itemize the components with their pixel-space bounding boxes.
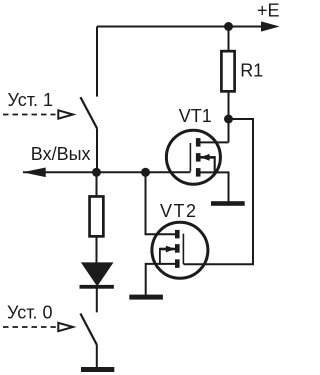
wire R1 top lead bbox=[228, 27, 230, 51]
wire left branch down to switch S1 top contact bbox=[96, 27, 98, 97]
wire drain node to VT2 gate (right side run) bbox=[184, 119, 253, 264]
junction dot node B bbox=[141, 168, 150, 177]
resistor R2 bbox=[90, 196, 104, 236]
open arrowhead Уст. 0 bbox=[58, 323, 73, 331]
junction dot node A bbox=[92, 168, 101, 177]
node Вх/Вых arrowhead bbox=[23, 168, 46, 178]
wire +E top rail bbox=[97, 26, 262, 28]
ground (VT1 source) bbox=[211, 201, 245, 206]
transistor VT2 bbox=[152, 222, 208, 278]
wire R1 bottom lead to drain node bbox=[228, 92, 230, 142]
svg-text:+E: +E bbox=[257, 1, 280, 21]
wire switch S2 bottom to ground bbox=[96, 345, 98, 368]
svg-text:VT2: VT2 bbox=[160, 201, 198, 221]
svg-text:Уст. 1: Уст. 1 bbox=[8, 90, 54, 110]
switch S1 (Уст. 1) blade bbox=[80, 97, 97, 128]
transistor VT1 bbox=[166, 130, 220, 184]
wire VT2 source lead to ground bbox=[146, 264, 175, 295]
diode VD1 bbox=[80, 262, 114, 288]
wire node B down to VT2 drain lead bbox=[146, 172, 176, 234]
svg-text:R1: R1 bbox=[240, 61, 263, 81]
open arrowhead Уст. 1 bbox=[58, 110, 73, 118]
svg-text:Уст. 0: Уст. 0 bbox=[7, 302, 53, 322]
wire node A down to resistor R2 bbox=[96, 172, 98, 195]
svg-text:Вх/Вых: Вх/Вых bbox=[31, 144, 91, 164]
resistor R1 bbox=[221, 51, 234, 91]
switch S2 (Уст. 0) blade bbox=[80, 314, 96, 345]
ground (switch S2) bbox=[81, 367, 114, 372]
ground (VT2 source) bbox=[129, 295, 163, 300]
wire VT1 source lead to ground bbox=[201, 172, 229, 201]
power +E arrowhead bbox=[261, 21, 280, 31]
wire VT1 drain lead bbox=[201, 141, 229, 143]
wire Вх/Вых horizontal net bbox=[23, 171, 190, 173]
control dashed line Уст. 1 bbox=[3, 114, 56, 116]
control dashed line Уст. 0 bbox=[3, 326, 56, 328]
junction dot drain node bbox=[224, 115, 233, 124]
wire switch S1 bottom to node A bbox=[96, 128, 98, 172]
junction dot top rail bbox=[224, 22, 233, 31]
svg-text:VT1: VT1 bbox=[179, 106, 212, 126]
wire diode cathode to switch S2 top contact bbox=[96, 289, 98, 313]
wire resistor R2 to diode anode bbox=[96, 237, 98, 263]
